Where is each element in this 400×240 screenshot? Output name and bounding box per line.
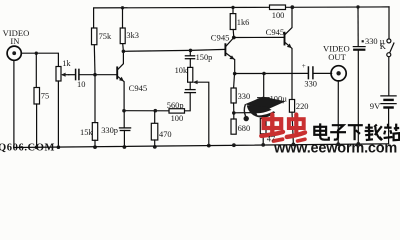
wire 100 left to emitter line: [124, 110, 169, 112]
potentiometer 10k: [188, 67, 193, 82]
svg-text:47: 47: [267, 135, 275, 144]
wire top supply rail right segment: [286, 6, 390, 8]
svg-text:1k: 1k: [62, 59, 71, 68]
svg-text:10: 10: [77, 80, 85, 89]
resistor 100 (series with 560p): [169, 109, 185, 113]
capacitor 330p: [123, 111, 125, 128]
wire 1k bottom lead to ground: [57, 81, 59, 147]
capacitor 560p: [189, 82, 191, 89]
resistor 680: [231, 119, 236, 134]
dian: [314, 123, 329, 139]
svg-text:220: 220: [296, 102, 309, 111]
svg-text:150p: 150p: [196, 53, 213, 62]
node 470 ground: [153, 145, 157, 149]
node 1k ground: [57, 145, 61, 149]
wire emitter rail to output cap: [235, 72, 308, 74]
node 100u branch top: [262, 72, 266, 76]
wire 75 top lead: [35, 53, 37, 87]
node 330/680 junction: [232, 111, 236, 115]
node: rail junction for 1k6: [231, 6, 234, 9]
node 220 ground: [292, 143, 296, 147]
wire top supply rail left segment: [94, 7, 270, 28]
node 47 ground: [261, 143, 265, 147]
watermark red chong chong characters: [261, 115, 305, 142]
xia: [348, 125, 363, 140]
resistor 15k: [92, 123, 97, 141]
resistor 3k3: [120, 28, 125, 44]
resistor 1k6: [232, 7, 234, 13]
watermark text dianzi xiazaizhan: [314, 123, 399, 140]
svg-text:330: 330: [304, 80, 317, 89]
capacitor 10u input coupling: [69, 74, 75, 76]
svg-text:1k6: 1k6: [237, 18, 250, 27]
svg-text:K: K: [380, 41, 387, 51]
switch K: [388, 7, 390, 39]
svg-text:15k: 15k: [80, 128, 93, 137]
node 330p ground: [123, 145, 127, 149]
node 330u ground: [356, 142, 360, 146]
wire connector ground down: [13, 60, 15, 147]
zi: [330, 125, 346, 139]
svg-text:470: 470: [159, 130, 172, 139]
wire output connector ground: [337, 81, 339, 145]
node 150p branch: [189, 49, 193, 53]
node: rail junction 330u: [356, 5, 359, 8]
wire 330/680 junction to 47 branch: [234, 112, 264, 114]
capacitor 330u supply filter: [357, 7, 359, 46]
svg-text:75: 75: [41, 92, 49, 101]
svg-text:IN: IN: [10, 36, 20, 46]
svg-text:10k: 10k: [175, 66, 188, 75]
svg-text:9V: 9V: [370, 101, 381, 111]
node output ground: [336, 142, 340, 146]
resistor 220: [289, 100, 294, 113]
node 10k wiper ground: [207, 144, 211, 148]
zai: [365, 124, 383, 140]
zhan: [384, 124, 400, 141]
wire 15k bottom lead: [94, 140, 96, 147]
svg-text:330: 330: [238, 92, 251, 101]
svg-text:www.eeworm.com: www.eeworm.com: [273, 141, 398, 155]
svg-text:100: 100: [171, 114, 184, 123]
wire bottom ground rail: [14, 144, 389, 148]
svg-text:Q606.COM: Q606.COM: [0, 143, 55, 154]
node Q1 collector: [122, 50, 126, 54]
wire 3k3 bottom to collector node: [122, 44, 125, 52]
wire collector to Q2 base: [123, 49, 225, 51]
node input/75 junction: [35, 52, 38, 55]
battery 9V: [381, 95, 396, 97]
watermark mortarboard logo: [244, 97, 286, 122]
capacitor 330 output coupling: [307, 67, 309, 79]
capacitor 150p: [189, 50, 191, 55]
svg-text:680: 680: [238, 124, 251, 133]
potentiometer 1k: [56, 67, 61, 82]
svg-text:100: 100: [272, 11, 285, 20]
svg-text:+: +: [302, 62, 306, 70]
connector J1 VIDEO IN: [7, 46, 21, 60]
wire 1k wiper: [63, 74, 69, 76]
wire input signal: [21, 53, 58, 66]
resistor 75: [34, 88, 40, 105]
node Q2 collector: [232, 36, 236, 40]
resistor 75k: [92, 28, 97, 45]
node Q2 emitter junction: [233, 72, 237, 76]
capacitor 100u: [263, 100, 265, 113]
node 75 ground: [35, 146, 39, 150]
wire 75 bottom lead: [36, 104, 38, 147]
wire 3k3 top lead: [122, 8, 124, 28]
node: rail junction for 3k3: [121, 6, 124, 9]
resistor 470: [154, 111, 156, 124]
svg-text:3k3: 3k3: [126, 31, 139, 40]
wire 75k bottom lead: [93, 45, 96, 75]
node 15k ground: [93, 145, 97, 149]
svg-text:C945: C945: [129, 83, 148, 93]
svg-text:75k: 75k: [99, 32, 112, 41]
wire cap to base: [80, 74, 117, 76]
wire 10k wiper to ground: [194, 82, 208, 145]
resistor 47: [260, 119, 266, 134]
node 470 top: [154, 109, 158, 113]
wire cap to output connector: [314, 72, 332, 74]
node 47 branch: [262, 111, 266, 115]
connector J2 VIDEO OUT: [331, 66, 346, 81]
svg-text:330p: 330p: [101, 126, 118, 135]
wire 15k top lead: [94, 75, 96, 123]
resistor 330: [233, 74, 236, 88]
node 680 ground: [232, 143, 236, 147]
node bias junction: [93, 73, 97, 77]
node Q1 emitter junction: [122, 109, 126, 113]
svg-text:C945: C945: [211, 33, 230, 43]
wire Q2 collector to Q3 base: [234, 36, 284, 38]
transistor Q1 C945: [116, 67, 118, 78]
svg-text:C945: C945: [266, 27, 285, 37]
resistor 100 (in top rail): [270, 5, 286, 10]
node: rail junction Q3 collector: [290, 5, 294, 9]
svg-text:OUT: OUT: [328, 52, 346, 62]
